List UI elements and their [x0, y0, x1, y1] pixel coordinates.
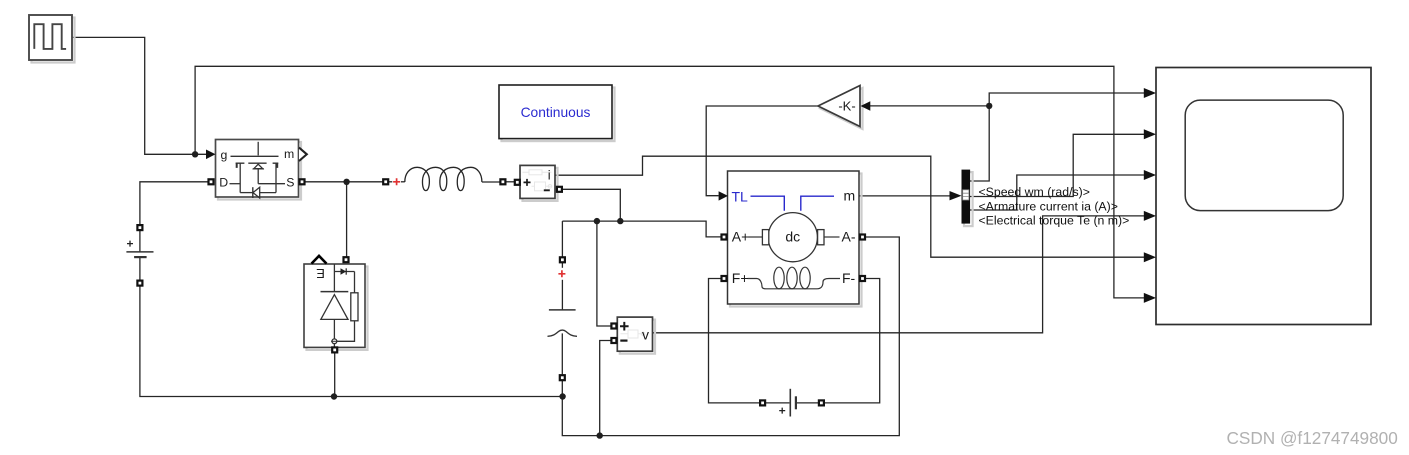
- svg-text:i: i: [548, 167, 551, 182]
- svg-text:v: v: [642, 327, 649, 343]
- svg-text:CSDN @f1274749800: CSDN @f1274749800: [1227, 428, 1398, 448]
- svg-text:F-: F-: [842, 270, 856, 286]
- svg-text:D: D: [219, 175, 228, 189]
- svg-text:A-: A-: [842, 228, 856, 244]
- svg-text:E: E: [316, 266, 325, 281]
- svg-text:dc: dc: [785, 229, 800, 245]
- svg-text:<Armature current ia (A)>: <Armature current ia (A)>: [979, 199, 1118, 213]
- svg-text:<Speed wm (rad/s)>: <Speed wm (rad/s)>: [979, 185, 1090, 199]
- svg-text:m: m: [284, 147, 294, 161]
- svg-text:-K-: -K-: [838, 99, 855, 114]
- svg-text:g: g: [221, 148, 228, 162]
- svg-text:A+: A+: [732, 228, 750, 244]
- svg-text:Continuous: Continuous: [521, 105, 591, 120]
- svg-text:m: m: [844, 187, 856, 203]
- svg-text:<Electrical torque Te (n m)>: <Electrical torque Te (n m)>: [979, 214, 1130, 228]
- svg-text:TL: TL: [732, 188, 749, 204]
- svg-text:S: S: [286, 175, 294, 189]
- svg-text:F+: F+: [732, 270, 749, 286]
